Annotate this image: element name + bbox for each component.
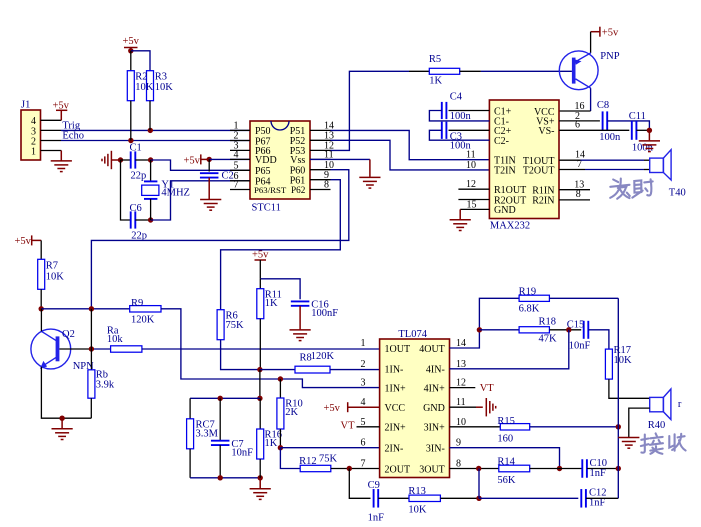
svg-text:3OUT: 3OUT xyxy=(419,464,445,475)
svg-text:100nF: 100nF xyxy=(311,308,338,319)
wire bottom rail RC7 xyxy=(190,477,260,479)
svg-text:75K: 75K xyxy=(319,454,338,465)
svg-text:10K: 10K xyxy=(614,355,633,366)
wire C9 to R13 xyxy=(378,497,409,499)
svg-text:1K: 1K xyxy=(265,298,278,309)
wire 4OUT to feedback xyxy=(450,298,520,348)
ground below C16 xyxy=(290,330,311,341)
svg-text:C6: C6 xyxy=(130,203,142,214)
svg-text:3.3M: 3.3M xyxy=(196,429,219,440)
resistor R11 1K xyxy=(259,279,261,289)
wire 3IN+ to R15 xyxy=(450,426,501,428)
svg-text:1: 1 xyxy=(31,146,36,157)
resistor R12 75K xyxy=(300,465,331,471)
pin stub GND11 xyxy=(450,406,477,408)
resistor R8 120K xyxy=(295,366,330,373)
svg-text:160: 160 xyxy=(497,434,513,445)
svg-text:1IN+: 1IN+ xyxy=(385,383,407,394)
svg-text:7: 7 xyxy=(234,180,239,191)
wire +5v to R7 xyxy=(40,240,42,259)
junction XTAL1 xyxy=(148,157,153,162)
svg-text:C8: C8 xyxy=(597,100,609,111)
wire J1 pin4 xyxy=(41,119,62,121)
junction R10 top xyxy=(278,376,283,381)
svg-text:T2OUT: T2OUT xyxy=(523,165,555,176)
capacitor C10 1nF xyxy=(582,459,587,478)
crystal Y1 4MHZ xyxy=(150,160,152,181)
power +5v at R7 xyxy=(15,235,32,247)
capacitor C3 100n xyxy=(449,129,490,131)
svg-text:10K: 10K xyxy=(155,82,174,93)
svg-text:2OUT: 2OUT xyxy=(385,464,411,475)
resistor R13 10K xyxy=(409,495,440,501)
wire P60 down to Q2 base node xyxy=(91,170,348,309)
svg-text:P62: P62 xyxy=(291,185,306,195)
svg-text:VDD: VDD xyxy=(255,155,277,166)
wire speaker to ground xyxy=(629,408,650,437)
svg-text:+5v: +5v xyxy=(252,250,269,261)
junction R16 bottom xyxy=(258,475,263,480)
svg-text:Q2: Q2 xyxy=(62,329,75,340)
wire R18 from tap xyxy=(479,329,519,331)
ground at MAX232 GND xyxy=(450,220,471,231)
svg-text:6.8K: 6.8K xyxy=(519,304,540,315)
svg-text:STC11: STC11 xyxy=(252,203,281,214)
svg-text:1nF: 1nF xyxy=(590,468,607,479)
svg-text:+5v: +5v xyxy=(15,236,32,247)
svg-text:12: 12 xyxy=(466,179,476,190)
power +5v above R2 xyxy=(123,36,140,48)
resistor R6 75K xyxy=(217,310,224,340)
wire GND pin to ground xyxy=(460,208,489,210)
svg-text:4MHZ: 4MHZ xyxy=(161,188,190,199)
resistor Rb 3.9k xyxy=(88,370,95,398)
svg-text:4IN-: 4IN- xyxy=(426,365,445,376)
resistor R5 1K xyxy=(429,68,459,74)
ground at J1 xyxy=(51,161,72,172)
svg-text:R7: R7 xyxy=(46,261,58,272)
transistor Q1 PNP xyxy=(559,51,598,90)
svg-text:R18: R18 xyxy=(539,317,557,328)
junction VS ground xyxy=(647,128,652,133)
wire R14 to C10 xyxy=(530,468,583,470)
wire +5v branch xyxy=(260,279,300,299)
svg-text:C1+: C1+ xyxy=(494,106,512,117)
svg-text:1: 1 xyxy=(361,338,366,349)
wire XTAL1 to MCU pin5 xyxy=(151,160,250,170)
svg-text:VT: VT xyxy=(341,421,356,432)
wire R19 to right rail xyxy=(549,297,618,299)
junction 2IN- node xyxy=(278,445,283,450)
wire R12 to 2OUT xyxy=(331,468,380,470)
resistor R14 56K xyxy=(499,465,530,472)
wire C12 to right rail xyxy=(586,497,618,499)
svg-text:22p: 22p xyxy=(131,171,147,182)
wire collector to VCC16 xyxy=(590,88,592,111)
resistor R17 10K xyxy=(605,349,612,379)
svg-text:R13: R13 xyxy=(408,486,426,497)
svg-text:R15: R15 xyxy=(497,416,515,427)
junction +5v/R2/R3 xyxy=(128,48,133,53)
junction VDD xyxy=(207,157,212,162)
power +5v at TL074 VCC xyxy=(324,402,348,414)
wire VDD to MCU pin4 xyxy=(209,158,250,160)
svg-text:TL074: TL074 xyxy=(398,329,427,340)
svg-text:GND: GND xyxy=(423,403,445,414)
connector J1 xyxy=(21,110,41,160)
svg-text:2IN+: 2IN+ xyxy=(385,423,407,434)
wire RC7 top rail xyxy=(190,397,260,399)
svg-text:VS-: VS- xyxy=(538,126,554,137)
svg-text:R12: R12 xyxy=(299,456,317,467)
svg-text:+5v: +5v xyxy=(184,155,201,166)
wire emitter down to ground rail xyxy=(41,367,91,418)
svg-text:R2IN: R2IN xyxy=(532,196,554,207)
svg-text:VT: VT xyxy=(480,383,495,394)
svg-text:C9: C9 xyxy=(368,480,380,491)
power +5v at VDD xyxy=(184,154,201,166)
capacitor C16 100nF xyxy=(291,301,310,305)
power +5v at R11 xyxy=(252,250,269,261)
wire C12 row xyxy=(479,497,578,499)
wire 3IN- to R14 out xyxy=(450,448,560,469)
svg-text:MAX232: MAX232 xyxy=(490,220,530,231)
junction 3IN-/R14 xyxy=(557,466,562,471)
svg-text:100n: 100n xyxy=(450,140,472,151)
ground at VS xyxy=(639,141,660,152)
capacitor C2 xyxy=(208,159,210,171)
svg-text:C11: C11 xyxy=(629,111,646,122)
wire T2OUT to speaker xyxy=(559,169,585,171)
wire R7 to node xyxy=(40,289,42,309)
svg-text:1K: 1K xyxy=(265,438,278,449)
wire base to Ra xyxy=(59,348,91,350)
junction base node top xyxy=(89,306,94,311)
capacitor C6 22p xyxy=(131,211,136,228)
junction Echo/R2 xyxy=(128,138,133,143)
ground below Q2 xyxy=(52,429,73,440)
pin stub R1OUT xyxy=(458,188,489,190)
resistor R19 6.8K xyxy=(519,295,549,301)
svg-text:VCC: VCC xyxy=(385,403,406,414)
svg-text:+5v: +5v xyxy=(324,403,341,414)
wire R11 to node xyxy=(259,319,261,370)
svg-text:10: 10 xyxy=(466,160,476,171)
wire node to R9 xyxy=(41,308,130,310)
svg-text:10k: 10k xyxy=(107,334,124,345)
wire R15 to right rail xyxy=(530,426,619,428)
resistor R2 xyxy=(127,71,134,101)
svg-text:R19: R19 xyxy=(519,287,537,298)
op-amp U3 MAX232 box xyxy=(489,100,559,219)
wire R2 to Echo xyxy=(130,101,132,141)
transistor Q2 NPN xyxy=(31,329,71,369)
wire R8 to 1IN- xyxy=(330,369,380,371)
wire C15 to R17 xyxy=(588,330,609,349)
svg-text:7: 7 xyxy=(361,459,366,470)
op-amp U1 TL074 box xyxy=(380,339,450,478)
svg-text:J1: J1 xyxy=(21,100,30,111)
svg-text:120K: 120K xyxy=(131,315,155,326)
svg-text:R40: R40 xyxy=(648,420,666,431)
junction C15 xyxy=(566,327,571,332)
wire Ra to 1OUT xyxy=(142,348,380,350)
wire P51 to T1IN xyxy=(331,130,490,159)
label fa-she transmit xyxy=(610,179,653,199)
svg-text:C2-: C2- xyxy=(494,136,509,147)
ground at Vss xyxy=(359,177,380,188)
wire collector up xyxy=(40,309,42,332)
capacitor C7 10nF xyxy=(219,398,221,440)
wire base node vertical xyxy=(90,309,92,370)
node Trig wire xyxy=(41,129,62,131)
ground below C2 xyxy=(200,200,221,211)
wire C6 to XTAL2 node xyxy=(135,219,150,221)
junction R18 tap xyxy=(477,327,482,332)
wire right feedback rail xyxy=(617,298,619,498)
wire P61 down to R6 xyxy=(221,180,341,310)
capacitor C12 1nF xyxy=(581,489,586,508)
wire Vss to ground xyxy=(310,158,370,160)
power +5v at J1 xyxy=(53,101,70,112)
svg-text:R9: R9 xyxy=(131,298,143,309)
wire R6 to node xyxy=(221,340,260,370)
pin stub 4IN+ xyxy=(450,387,476,389)
svg-text:3IN-: 3IN- xyxy=(426,444,445,455)
svg-text:120K: 120K xyxy=(311,351,335,362)
wire P52 to T2IN xyxy=(331,140,490,170)
wire J1 pin1 to ground xyxy=(41,150,62,152)
svg-text:1IN-: 1IN- xyxy=(385,365,404,376)
wire 2OUT loop down xyxy=(349,469,370,499)
wire R10 to 2IN- node xyxy=(279,429,281,448)
resistor R10 2K xyxy=(279,379,281,398)
svg-text:2: 2 xyxy=(361,359,366,370)
wire R9 to 1IN+ net xyxy=(161,309,380,388)
resistor RC7 3.3M xyxy=(189,398,191,419)
wire R13 to 3OUT node xyxy=(440,497,479,499)
wire +5v to R2 R3 xyxy=(131,51,150,71)
svg-text:47K: 47K xyxy=(539,334,558,345)
capacitor C11 100n xyxy=(559,129,629,131)
wire node to R12 xyxy=(280,448,300,469)
ground left of C1 xyxy=(102,151,111,169)
svg-text:1K: 1K xyxy=(429,76,442,87)
svg-text:2K: 2K xyxy=(285,407,298,418)
wire P53 to R5 xyxy=(331,71,410,150)
junction R7/collector xyxy=(39,306,44,311)
svg-text:PNP: PNP xyxy=(600,51,619,62)
svg-text:GND: GND xyxy=(494,205,516,216)
pin stub R2OUT xyxy=(458,199,489,201)
pin stubs MCU right xyxy=(310,129,331,131)
junction Trig/R3 xyxy=(148,128,153,133)
junction emitter ground xyxy=(59,416,64,421)
capacitor C1 22p xyxy=(121,159,131,161)
svg-text:3.9k: 3.9k xyxy=(96,380,115,391)
svg-text:8: 8 xyxy=(324,180,329,191)
svg-text:75K: 75K xyxy=(226,320,245,331)
power +5v at PNP xyxy=(600,27,619,39)
junction 3OUT xyxy=(476,466,481,471)
svg-text:4IN+: 4IN+ xyxy=(424,383,446,394)
svg-text:15: 15 xyxy=(467,199,477,210)
junction RC7 node xyxy=(257,396,262,401)
svg-text:10K: 10K xyxy=(135,82,154,93)
svg-text:10nF: 10nF xyxy=(569,341,591,352)
ground below R16 xyxy=(250,489,271,500)
svg-text:Echo: Echo xyxy=(62,131,84,142)
svg-text:P65: P65 xyxy=(255,166,271,177)
wire 2IN- to TL074 pin6 xyxy=(280,447,379,449)
resistor R15 160 xyxy=(500,424,529,430)
wire R5 to Q1 base xyxy=(460,70,481,72)
svg-text:C4: C4 xyxy=(450,92,463,103)
resistor Ra 10k xyxy=(111,346,142,352)
svg-text:16: 16 xyxy=(575,101,585,112)
wire XTAL2 to MCU pin6 xyxy=(151,181,250,220)
wire 3OUT to R14 xyxy=(450,468,499,470)
svg-text:56K: 56K xyxy=(497,475,516,486)
svg-text:4: 4 xyxy=(234,150,239,161)
capacitor C9 1nF xyxy=(374,489,379,508)
wire node to R8 xyxy=(260,369,295,371)
wire node down xyxy=(259,370,261,399)
resistor R16 1K xyxy=(259,398,261,429)
junction C7 bottom xyxy=(218,475,223,480)
svg-text:8: 8 xyxy=(576,189,581,200)
wire C1 to XTAL1 node xyxy=(135,159,150,161)
speaker T40 xyxy=(650,158,664,172)
svg-text:C1: C1 xyxy=(130,143,142,154)
pin stubs MCU left xyxy=(230,129,250,131)
svg-text:10K: 10K xyxy=(408,505,427,516)
wire R3 to Trig xyxy=(149,101,151,131)
wire ground down to C6 xyxy=(121,160,131,220)
ground below R40 xyxy=(618,438,639,449)
svg-text:T2IN: T2IN xyxy=(494,166,516,177)
wire C10 to right rail xyxy=(587,468,618,470)
svg-text:2IN-: 2IN- xyxy=(385,444,404,455)
svg-text:R2: R2 xyxy=(135,72,147,83)
junction R15 rail xyxy=(616,424,621,429)
resistor R7 10K xyxy=(38,259,45,289)
capacitor C4 100n xyxy=(449,110,490,112)
resistor R18 47K xyxy=(519,327,549,333)
svg-text:R3: R3 xyxy=(155,72,167,83)
ground at TL074 GND xyxy=(486,398,495,416)
svg-text:10nF: 10nF xyxy=(231,448,253,459)
resistor R9 120K xyxy=(130,306,161,312)
svg-text:r: r xyxy=(678,399,682,410)
svg-text:100n: 100n xyxy=(599,132,621,143)
label jie-shou receive xyxy=(641,433,686,453)
junction R13/C12 xyxy=(476,496,481,501)
wire R17 to speaker xyxy=(609,379,650,398)
svg-text:1nF: 1nF xyxy=(368,513,385,524)
wire Rb to ground rail xyxy=(90,398,92,418)
svg-text:T40: T40 xyxy=(669,187,686,198)
wire C15 node to 4IN- xyxy=(450,330,569,369)
wire up to 3OUT xyxy=(478,469,480,499)
svg-text:R5: R5 xyxy=(429,54,441,65)
junction XTAL2 xyxy=(148,217,153,222)
svg-text:3IN+: 3IN+ xyxy=(424,423,446,434)
svg-text:1OUT: 1OUT xyxy=(385,344,411,355)
svg-text:+5v: +5v xyxy=(123,36,140,47)
op-amp U2 MCU STC11 box xyxy=(250,121,310,199)
svg-text:6: 6 xyxy=(361,438,366,449)
junction C7 top xyxy=(218,396,223,401)
capacitor C15 10nF xyxy=(584,321,589,339)
node Echo wire xyxy=(41,140,62,142)
svg-text:3: 3 xyxy=(361,378,366,389)
svg-text:4OUT: 4OUT xyxy=(419,344,445,355)
junction R6/R11/R8 xyxy=(257,367,262,372)
svg-text:+5v: +5v xyxy=(602,28,619,39)
svg-text:5: 5 xyxy=(234,161,239,172)
junction ground/C1/C6 xyxy=(118,157,123,162)
capacitor C8 100n xyxy=(559,120,600,122)
wire +5v to emitter xyxy=(590,32,592,53)
junction base xyxy=(89,346,94,351)
resistor R3 xyxy=(147,71,154,101)
svg-text:100n: 100n xyxy=(450,111,472,122)
svg-text:P63/RST: P63/RST xyxy=(254,185,287,195)
svg-text:C15: C15 xyxy=(567,319,585,330)
junction C10 rail xyxy=(616,466,621,471)
wire R18 to C15 xyxy=(549,329,581,331)
junction 2OUT xyxy=(347,466,352,471)
speaker R40 xyxy=(650,397,664,411)
svg-text:R14: R14 xyxy=(497,457,515,468)
svg-text:10K: 10K xyxy=(46,272,65,283)
svg-text:C2: C2 xyxy=(222,171,234,182)
